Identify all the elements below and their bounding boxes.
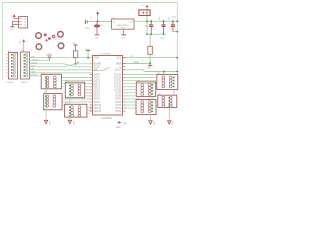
- module U$1 box: [19, 17, 28, 28]
- wire VCC arrow down to input net: [97, 14, 99, 16]
- svg-text:OUT10: OUT10: [114, 90, 122, 92]
- svg-text:OUT0: OUT0: [94, 74, 101, 76]
- connector JP3 box: [41, 73, 61, 89]
- svg-text:SOUT: SOUT: [32, 59, 38, 61]
- IC1 pin labels upper: [94, 58, 122, 72]
- wire U$1 pins to GND: [12, 21, 18, 26]
- svg-text:GND: GND: [94, 37, 99, 39]
- svg-text:GND: GND: [10, 29, 15, 31]
- svg-text:VCC: VCC: [117, 58, 122, 60]
- svg-text:PINHD8: PINHD8: [21, 82, 28, 84]
- svg-text:JP10: JP10: [136, 98, 140, 100]
- svg-text:JP2: JP2: [21, 50, 24, 52]
- svg-text:LM1117/SOT: LM1117/SOT: [117, 25, 129, 27]
- wire C7 to right rail: [173, 31, 177, 33]
- svg-text:JP7: JP7: [157, 73, 160, 75]
- svg-text:OUT3: OUT3: [115, 111, 122, 113]
- power VCC arrow for U$1: [13, 14, 16, 17]
- svg-text:JP1: JP1: [8, 51, 11, 53]
- svg-text:GND: GND: [171, 121, 173, 126]
- svg-text:OUT8: OUT8: [94, 99, 101, 101]
- IC1 OUT pin labels: [94, 74, 123, 113]
- main IC1 TLC5940 box: [93, 56, 123, 116]
- connector JP7 box: [157, 73, 178, 90]
- svg-text:GND: GND: [116, 127, 121, 129]
- capacitor C6: [161, 21, 165, 34]
- wire VLED rail to connectors: [123, 70, 178, 72]
- wire through jumper SJ1: [146, 7, 148, 21]
- svg-text:PAD: PAD: [123, 122, 127, 125]
- svg-text:IREF: IREF: [116, 63, 122, 65]
- ground arrow below JP9: [168, 121, 171, 124]
- svg-text:GND: GND: [72, 121, 74, 126]
- svg-text:OUT13: OUT13: [114, 81, 122, 83]
- wire bus GSCLK row: [30, 75, 42, 77]
- wire bus GND row: [30, 57, 93, 59]
- svg-text:100n: 100n: [169, 16, 171, 20]
- module U$1 pin marks: [19, 18, 26, 25]
- thermal pad pin of IC1: [118, 121, 120, 124]
- svg-text:JP3: JP3: [41, 73, 44, 75]
- bus net labels: [31, 56, 39, 76]
- wire bus SIN row: [30, 69, 93, 71]
- ground arrow below JP6: [68, 120, 71, 123]
- svg-text:PINHD8: PINHD8: [7, 82, 14, 84]
- svg-text:XLAT: XLAT: [31, 71, 37, 74]
- svg-text:OUT7: OUT7: [94, 96, 101, 98]
- svg-text:GND: GND: [31, 56, 36, 58]
- wire JP7 chain down: [173, 90, 175, 96]
- wires JP5 to IC1: [85, 87, 93, 96]
- svg-text:OUT5: OUT5: [94, 90, 101, 92]
- mounting hole H4: [58, 43, 64, 49]
- node junction dots on output rail: [146, 20, 178, 22]
- capacitor C4 (polarized, at regulator input): [96, 21, 98, 24]
- wire bus XLAT row: [30, 72, 93, 74]
- node junction at IREF: [149, 63, 151, 65]
- wire lower bypass rail: [146, 33, 166, 35]
- connector JP8 box: [136, 80, 155, 96]
- svg-text:GND: GND: [121, 37, 126, 39]
- IC1 pin stubs right: [123, 58, 126, 70]
- connector JP4 box: [44, 92, 62, 110]
- power VCC arrow at regulator input: [96, 11, 99, 14]
- svg-text:JP6: JP6: [65, 103, 68, 105]
- IC1 pin stubs left: [90, 58, 93, 70]
- svg-text:GND: GND: [152, 121, 154, 126]
- svg-text:TLC5940PWP: TLC5940PWP: [100, 54, 112, 56]
- svg-text:OUT14: OUT14: [114, 77, 122, 79]
- ground symbol below IREF junction: [149, 64, 151, 66]
- wire bus BLANK row: [30, 64, 93, 67]
- svg-text:OUT12: OUT12: [114, 84, 122, 86]
- voltage regulator IC2 box: [112, 19, 134, 29]
- wire IREF pin to R1: [123, 63, 151, 65]
- wire VCC pin of IC1 to right rail: [123, 57, 178, 59]
- svg-text:100n: 100n: [159, 16, 161, 20]
- power VCC arrow above JP2: [22, 39, 25, 42]
- node junction at regulator input: [97, 20, 99, 22]
- svg-text:OUT2: OUT2: [94, 81, 101, 83]
- wire regulator output rail: [134, 20, 177, 22]
- wire GND chain left connectors: [46, 87, 70, 120]
- svg-text:JP8: JP8: [137, 80, 140, 82]
- pin header JP1 box: [8, 53, 17, 80]
- wire VCC top rail: [3, 3, 178, 81]
- mounting hole H1: [36, 33, 42, 39]
- mounting hole H2: [58, 32, 64, 38]
- svg-text:OUT15: OUT15: [114, 74, 122, 76]
- wire bus SOUT row to testpoint: [30, 60, 50, 62]
- svg-text:OUT7: OUT7: [115, 99, 122, 101]
- pin header JP2 box: [21, 52, 30, 79]
- IC1 OUT pin rows: [90, 75, 126, 112]
- svg-text:OUT11: OUT11: [114, 87, 122, 89]
- pin header JP1 pins: [6, 55, 9, 76]
- wires IC1 to JP8: [123, 87, 137, 96]
- ground symbol below C4: [95, 34, 100, 36]
- wire VCC to JP2: [23, 42, 25, 52]
- mounting hole H3: [36, 44, 42, 50]
- svg-text:VCC: VCC: [19, 39, 21, 44]
- svg-text:VLED: VLED: [172, 17, 177, 19]
- ground symbol for U$1: [10, 26, 14, 28]
- wire U$1 pin1 to VCC: [14, 17, 18, 18]
- connector JP9 box: [158, 94, 177, 108]
- svg-text:BLANK: BLANK: [94, 62, 102, 65]
- wire regulator input: [87, 20, 112, 22]
- svg-text:JP4: JP4: [44, 92, 47, 94]
- svg-text:C5: C5: [145, 26, 147, 28]
- wires JP4 to IC1: [62, 99, 92, 106]
- wires JP3 to IC1: [61, 78, 92, 87]
- net stub mark left of input wire: [85, 20, 87, 24]
- svg-text:GND: GND: [94, 58, 99, 60]
- svg-text:IC1(5940): IC1(5940): [102, 118, 112, 120]
- wire bus SCLK row: [30, 64, 93, 67]
- wire drop to JP7: [163, 72, 165, 75]
- svg-text:XLAT: XLAT: [119, 66, 125, 69]
- svg-text:OUT5: OUT5: [115, 105, 122, 107]
- connector JP5 box: [65, 81, 84, 98]
- wire jumper branch to lower rail: [146, 21, 148, 34]
- svg-text:BLANK: BLANK: [31, 61, 38, 64]
- svg-text:OUT12: OUT12: [94, 111, 102, 113]
- wires IC1 to JP7: [123, 75, 157, 84]
- svg-text:OUT1: OUT1: [94, 77, 101, 79]
- svg-text:SCLK: SCLK: [31, 65, 37, 67]
- svg-text:OUT3: OUT3: [94, 84, 101, 86]
- svg-text:OUT6: OUT6: [115, 102, 122, 104]
- svg-text:SOUT: SOUT: [115, 70, 122, 72]
- svg-text:GND: GND: [48, 121, 50, 126]
- svg-text:OUT6: OUT6: [94, 93, 101, 95]
- capacitor C5: [149, 21, 153, 34]
- svg-text:GND: GND: [147, 68, 152, 70]
- wire XLAT diagonal inside IC area: [93, 70, 103, 72]
- fiducial dots: [44, 33, 55, 41]
- svg-text:OUT4: OUT4: [94, 87, 101, 89]
- svg-text:VCC: VCC: [12, 14, 14, 19]
- svg-text:XERR: XERR: [133, 62, 139, 64]
- wires IC1 to JP10: [123, 99, 137, 108]
- svg-text:JP5: JP5: [65, 81, 68, 83]
- ground arrow below JP10: [149, 121, 152, 124]
- connector JP10 box: [136, 98, 156, 115]
- svg-text:OUT11: OUT11: [94, 108, 102, 110]
- ground arrow below JP4: [44, 120, 47, 123]
- svg-text:SIN: SIN: [31, 69, 35, 71]
- wire GND chain right connectors: [151, 96, 170, 120]
- jumper SJ1 box: [139, 10, 150, 16]
- svg-text:GND: GND: [121, 28, 126, 30]
- svg-text:OUT9: OUT9: [115, 93, 122, 95]
- ground symbol below regulator: [121, 34, 126, 36]
- svg-text:PWR1: PWR1: [85, 28, 90, 30]
- svg-text:OUT8: OUT8: [115, 96, 122, 98]
- svg-text:JP9: JP9: [158, 94, 161, 96]
- svg-text:VLED: VLED: [160, 38, 165, 40]
- wires JP6 to IC1: [87, 107, 93, 113]
- svg-text:OUT4: OUT4: [115, 108, 122, 110]
- connector JP6 box: [65, 103, 87, 118]
- svg-text:GSCLK: GSCLK: [31, 75, 38, 77]
- power VCC arrow above jumper SJ1: [146, 5, 149, 8]
- capacitor C7: [171, 21, 175, 31]
- svg-text:OUT10: OUT10: [94, 105, 102, 107]
- wire regulator ground pin: [123, 30, 125, 34]
- svg-text:OUT9: OUT9: [94, 102, 101, 104]
- resistor R1: [149, 34, 151, 46]
- svg-text:10u: 10u: [100, 25, 103, 27]
- wire VCC right rail: [176, 3, 178, 72]
- svg-text:SCLK: SCLK: [94, 67, 100, 69]
